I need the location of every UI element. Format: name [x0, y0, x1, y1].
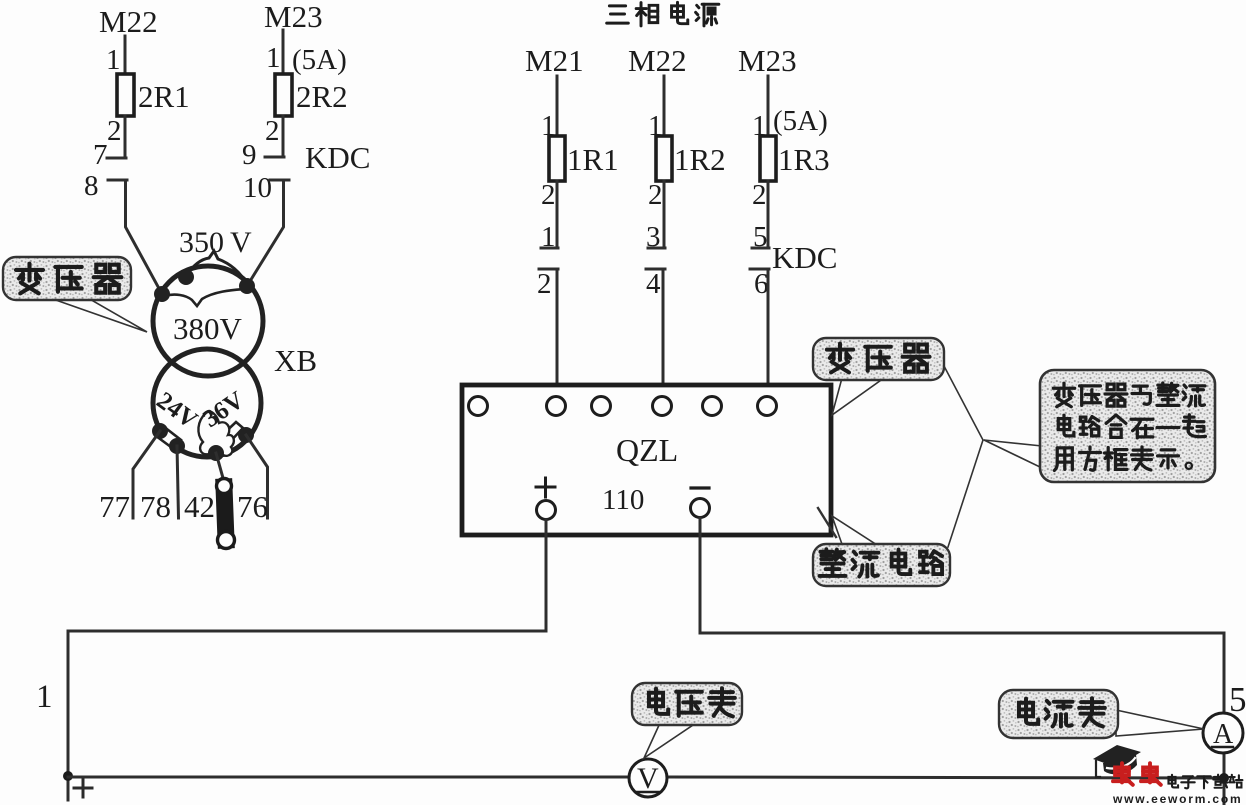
callout bubble: voltmeter: [632, 683, 742, 758]
plus polarity label: [74, 779, 92, 797]
watermark url: [1112, 792, 1242, 805]
node M21: [525, 43, 584, 78]
svg-text:78: 78: [140, 489, 171, 524]
squiggle doodle between secondary taps: [198, 412, 233, 459]
pin 2 of 1R3: [752, 179, 767, 211]
wire M23 down to 2R2: [282, 30, 285, 75]
svg-text:2R2: 2R2: [296, 79, 348, 114]
svg-text:2: 2: [265, 115, 280, 147]
wire M22 down to 2R1: [124, 36, 127, 75]
input terminal a: [469, 397, 488, 416]
net label 1: [36, 679, 53, 715]
plus output terminal: [537, 501, 556, 520]
secondary tap junction 77: [152, 423, 168, 439]
svg-text:M22: M22: [99, 4, 158, 39]
wire 1R3 to contact: [767, 181, 770, 248]
wire tap to terminal 78: [177, 446, 179, 518]
svg-text:QZL: QZL: [616, 432, 678, 468]
fuse rating label (5A) right: [773, 105, 828, 137]
svg-text:V: V: [637, 762, 659, 795]
wire 1R2 to contact: [663, 181, 666, 248]
pin 10 KDC contact: [243, 172, 289, 204]
svg-text:2: 2: [648, 179, 663, 211]
bottom bus wire left of voltmeter: [68, 776, 630, 779]
pin 2 of 2R1: [107, 115, 122, 147]
svg-text:(5A): (5A): [292, 44, 347, 76]
node M23 (right): [738, 43, 797, 78]
node M23 (left feeder): [264, 0, 323, 34]
input terminal c: [592, 397, 611, 416]
wire M21 down: [556, 76, 559, 136]
callout bubble: transformer (left): [3, 257, 147, 332]
svg-text:9: 9: [242, 139, 257, 171]
svg-text:1R2: 1R2: [674, 142, 726, 177]
watermark site name: [1168, 775, 1242, 789]
input terminal d: [653, 397, 672, 416]
wire minus output down-right: [700, 518, 1224, 713]
value label 350V: [179, 226, 252, 259]
svg-text:M23: M23: [264, 0, 323, 34]
wire plus output down-left: [68, 520, 546, 800]
wire tap to plunger coil: [216, 453, 223, 478]
pin 4 KDC contact: [646, 268, 665, 300]
relay designator KDC (right): [772, 240, 837, 275]
wire M23 down: [767, 76, 770, 136]
rectifier block QZL: [462, 385, 831, 535]
value label 36V: [198, 387, 249, 433]
pin 9 KDC contact: [242, 139, 284, 171]
wire M22 down: [663, 76, 666, 136]
input terminal b: [547, 397, 566, 416]
svg-text:1R1: 1R1: [567, 142, 619, 177]
node M22 (right): [628, 43, 687, 78]
pin 2 KDC contact: [537, 268, 558, 300]
transformer XB primary winding (380V circle): [153, 266, 263, 376]
input terminal e: [703, 397, 722, 416]
watermark graduation cap: [1093, 745, 1141, 777]
wire contact 2 to QZL: [556, 269, 559, 397]
resistor 1R1: [549, 136, 619, 181]
pin 5 KDC contact: [752, 221, 769, 253]
resistor 1R3: [760, 136, 830, 181]
svg-text:1: 1: [36, 679, 53, 715]
tap lead ribbon right: [218, 422, 243, 446]
pin 3 KDC contact: [646, 221, 665, 253]
callout bubble: rectifier circuit: [813, 516, 950, 586]
terminal label 78: [140, 489, 171, 524]
wire 10 to transformer tap: [247, 180, 284, 286]
callout bubble: transformer (right): [813, 338, 944, 415]
wire 2R2 to contact: [282, 116, 285, 157]
svg-text:7: 7: [93, 139, 108, 171]
pin 2 of 1R1: [541, 179, 556, 211]
svg-text:380V: 380V: [173, 311, 243, 346]
tap lead ribbon left: [156, 426, 181, 450]
terminal label 77: [99, 489, 130, 524]
tap junction right: [239, 278, 255, 294]
minus output label: [691, 486, 709, 489]
svg-text:77: 77: [99, 489, 130, 524]
leader stroke across box corner: [818, 508, 836, 537]
net label 5: [1229, 680, 1246, 719]
secondary tap junction 76: [238, 427, 254, 443]
svg-text:10: 10: [243, 172, 272, 204]
wire contact 6 to QZL: [767, 269, 770, 397]
voltmeter V: [629, 759, 667, 797]
svg-text:KDC: KDC: [772, 240, 837, 275]
wire contact 4 to QZL: [662, 269, 665, 397]
pin 6 KDC contact: [750, 268, 769, 300]
svg-text:A: A: [1213, 719, 1234, 750]
svg-text:XB: XB: [274, 343, 317, 378]
pin 8 KDC contact: [84, 170, 127, 202]
pin 1 of 1R3: [752, 110, 767, 142]
secondary tap junction 42: [208, 445, 224, 461]
svg-text:2: 2: [537, 268, 552, 300]
svg-text:4: 4: [646, 268, 661, 300]
leader line bubble to note point (lower): [948, 440, 983, 547]
pin 1 of 2R2: [266, 42, 281, 74]
minus output terminal: [691, 499, 710, 518]
pin 2 of 2R2: [265, 115, 280, 147]
svg-text:(5A): (5A): [773, 105, 828, 137]
wire 8 to transformer tap: [126, 180, 163, 294]
350V tap arc above primary: [186, 251, 247, 285]
svg-text:5: 5: [1229, 680, 1246, 719]
node M22 (left feeder): [99, 4, 158, 39]
svg-text:8: 8: [84, 170, 99, 202]
svg-text:1R3: 1R3: [778, 142, 830, 177]
junction ammeter bus: [1219, 773, 1229, 783]
transformer XB secondary winding (24V/36V circle): [153, 349, 261, 457]
wire tap to terminal 76: [246, 435, 268, 518]
svg-text:6: 6: [754, 268, 769, 300]
leader line bubble to note point (upper): [944, 366, 983, 440]
terminal label 76: [237, 489, 268, 524]
wire 2R1 to contact: [124, 116, 127, 158]
resistor 2R2: [275, 74, 348, 116]
resistor 1R2: [656, 136, 726, 181]
fuse rating label (5A): [292, 44, 347, 76]
value label 24V: [151, 387, 202, 434]
svg-text:1: 1: [106, 44, 121, 76]
tap junction middle: [178, 269, 194, 285]
tap junction left: [154, 286, 170, 302]
svg-text:M21: M21: [525, 43, 584, 78]
svg-text:M23: M23: [738, 43, 797, 78]
pin 1 KDC contact: [541, 221, 558, 253]
transformer designator XB: [274, 343, 317, 378]
wire ammeter to bus: [1223, 753, 1226, 805]
note box: transformer and rectifier drawn as one block: [984, 370, 1215, 482]
svg-text:76: 76: [237, 489, 268, 524]
svg-text:2: 2: [541, 179, 556, 211]
svg-text:42: 42: [184, 489, 215, 524]
resistor 2R1: [117, 74, 190, 116]
value label 110: [602, 484, 644, 516]
secondary tap junction 78: [169, 438, 185, 454]
plunger coil element: [217, 479, 235, 549]
ammeter A: [1203, 713, 1243, 753]
wire tap to terminal 77: [133, 431, 160, 518]
relay coil designator KDC: [305, 140, 370, 175]
svg-text:2: 2: [107, 115, 122, 147]
pin 1 of 2R1: [106, 44, 121, 76]
svg-text:www.eeworm.com: www.eeworm.com: [1112, 792, 1242, 805]
pin 7 KDC contact: [93, 139, 126, 171]
terminal label 42: [184, 489, 215, 524]
winding squiggle inside primary: [164, 289, 245, 306]
junction plus corner: [63, 771, 73, 781]
callout bubble: ammeter: [999, 690, 1204, 738]
plus output label: [536, 478, 555, 497]
wire 1R1 to contact: [556, 181, 559, 248]
svg-text:2: 2: [752, 179, 767, 211]
pin 2 of 1R2: [648, 179, 663, 211]
svg-text:M22: M22: [628, 43, 687, 78]
input terminal f: [758, 397, 777, 416]
pin 1 of 1R1: [541, 110, 556, 142]
three-phase source title: [607, 2, 719, 25]
watermark chongchong red: [1113, 763, 1161, 785]
svg-text:1: 1: [266, 42, 281, 74]
pin 1 of 1R2: [648, 110, 663, 142]
bottom bus wire right of voltmeter: [666, 777, 1224, 778]
svg-text:2R1: 2R1: [138, 79, 190, 114]
svg-text:110: 110: [602, 484, 644, 516]
svg-text:KDC: KDC: [305, 140, 370, 175]
